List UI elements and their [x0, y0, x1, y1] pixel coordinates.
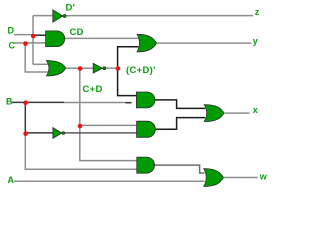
wire: B' inverter output to AND2 bottom input [64, 132, 136, 134]
svg-text:CD: CD [70, 27, 84, 38]
node: C+D lower tap junction [78, 124, 83, 129]
svg-text:C+D: C+D [83, 84, 103, 95]
wire: (C+D)' net down into AND1 top input [118, 68, 137, 95]
node: D junction [31, 34, 36, 39]
svg-text:C: C [9, 40, 16, 50]
wire: CD gate output to y-OR top input [65, 37, 139, 39]
inverter U3 (B') [53, 128, 65, 139]
AND gate G7 (w) [137, 157, 155, 173]
wire: C+D branch to AND2 top input [80, 124, 137, 126]
wire: B input horizontal dark segment [12, 101, 64, 103]
wire: A input horizontal into w-OR bottom input [14, 180, 205, 182]
wire: AND1 output jog down into x-OR top input [155, 100, 205, 109]
inverter U2 ((C+D)') [93, 63, 106, 73]
svg-text:z: z [255, 7, 260, 17]
svg-text:(C+D)': (C+D)' [126, 65, 156, 76]
wire: small inverter output to node (C+D)' [106, 67, 118, 69]
wire: B net vertical lower (gray) into w-AND bottom input [25, 133, 137, 169]
wire: OR C+D output to small inverter [66, 67, 94, 69]
svg-text:x: x [253, 105, 258, 115]
OR gate G3 (output y) [137, 34, 156, 52]
wire: C+D net vertical x=79.8 down to w-AND top input [80, 68, 137, 160]
inverter U1 (D') [53, 10, 66, 22]
svg-text:A: A [8, 175, 15, 185]
svg-text:D': D' [66, 2, 76, 13]
wire: C input horizontal into CD gate bottom input [14, 42, 46, 44]
svg-text:y: y [253, 36, 258, 46]
wire: x output [223, 112, 249, 114]
wire: y output [156, 42, 251, 44]
wire: (C+D)' net up into y-OR bottom input [118, 47, 139, 68]
node: B lower junction [23, 131, 28, 136]
node: C+D junction [78, 66, 83, 71]
AND gate G1 (CD) [46, 31, 65, 47]
OR gate G6 (output x) [204, 105, 224, 122]
svg-text:B: B [6, 97, 13, 107]
wire: D net vertical x=33 [32, 16, 34, 65]
node: B junction [23, 100, 28, 105]
OR gate G8 (output w) [204, 169, 223, 187]
wire: AND2 output jog up into x-OR bottom input [156, 118, 206, 130]
AND gate G5 (x bottom) [137, 121, 156, 137]
wire: inverter D' input [33, 15, 53, 17]
node: C junction [23, 41, 28, 46]
wire: z output from D' inverter [66, 15, 254, 17]
node: (C+D)' junction [116, 66, 121, 71]
wire: w-AND output jog down into w-OR top input [155, 165, 205, 173]
OR gate G2 (C+D) [46, 61, 65, 76]
wire: D branch into OR gate top input [33, 63, 48, 65]
wire: B net vertical upper (black) [24, 102, 26, 132]
svg-text:D: D [8, 26, 15, 36]
wire: D stub into CD gate top input [33, 34, 46, 36]
wire: B input stub dark at AND1 [126, 102, 132, 104]
wire: w output [223, 177, 258, 179]
AND gate G4 (x top) [136, 92, 155, 108]
svg-text:w: w [259, 171, 267, 181]
wire: B input horizontal gray segment [64, 102, 127, 104]
wire: B tap to B' inverter input [25, 132, 53, 134]
wire: D input horizontal [14, 34, 33, 36]
wire: C net vertical x=25.2 down into OR bottom input [25, 43, 48, 72]
